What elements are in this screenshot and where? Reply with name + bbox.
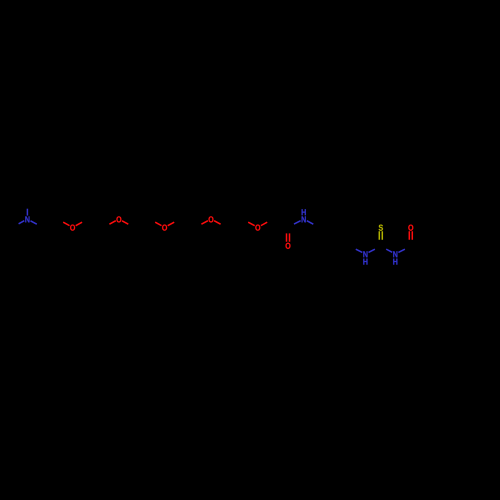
wire N4 to thiocarbonyl C: [386, 249, 392, 252]
wire O2 right half-bond: [122, 221, 128, 224]
wire O2 left half-bond: [109, 221, 115, 225]
atom N1 dimethylamino nitrogen: [25, 216, 29, 222]
wire amide C=O double bond: [287, 233, 290, 241]
atom O5 ether oxygen: [255, 225, 260, 231]
atom O4 ether oxygen: [209, 216, 214, 222]
atom O amide carbonyl oxygen: [286, 243, 291, 249]
atom N3 thiourea nitrogen: [363, 251, 367, 257]
wire O5 right half-bond: [261, 222, 267, 225]
atom S1 thiocarbonyl sulfur: [379, 225, 383, 231]
wire O3 right half-bond: [168, 222, 175, 226]
wire N4 to acyl C: [398, 249, 405, 252]
atom H on thiourea N3: [363, 259, 367, 265]
atom H on amide N2: [302, 209, 306, 215]
atom O2 ether oxygen: [116, 216, 121, 222]
wire O5 left half-bond: [248, 222, 255, 226]
wire N3 to thiocarbonyl C: [369, 249, 375, 252]
wire N3 to phenyl ring: [356, 249, 363, 252]
wire O3 left half-bond: [155, 222, 161, 225]
atom O3 ether oxygen: [162, 225, 167, 231]
wire N2 to carbonyl C: [294, 221, 301, 224]
wire N1 to methyl (down-left): [19, 221, 25, 224]
wire acyl C=O double bond: [409, 231, 412, 240]
atom H on thiourea N4: [393, 259, 397, 265]
wire C=S double bond: [379, 231, 382, 240]
wire O4 left half-bond: [201, 221, 208, 225]
wire O1 left half-bond: [63, 222, 69, 225]
wire O4 right half-bond: [214, 221, 221, 225]
atom N4 thiourea nitrogen: [393, 251, 397, 257]
atom O1 ether oxygen: [70, 225, 75, 231]
atom N2 amide nitrogen: [302, 216, 306, 222]
wire O1 right half-bond: [76, 222, 82, 226]
wire N1 to CH2 chain: [31, 221, 37, 224]
wire N2 to phenyl ring: [307, 221, 314, 225]
wire N1 to methyl (up): [26, 209, 28, 216]
atom O acyl carbonyl oxygen: [408, 225, 413, 231]
